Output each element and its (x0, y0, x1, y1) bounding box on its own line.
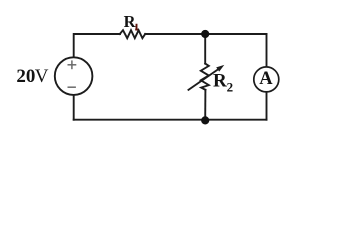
wire bottom (74, 119, 267, 121)
voltage source plus sign (68, 60, 77, 69)
svg-text:2: 2 (227, 80, 234, 95)
node junction bottom (201, 116, 209, 124)
ammeter A1 circle (254, 67, 279, 92)
voltage source V1 circle (55, 57, 93, 95)
wire middle branch upper (204, 34, 206, 64)
label R1 subscript 1 (135, 24, 138, 30)
svg-text:R: R (213, 70, 227, 91)
svg-text:A: A (259, 69, 273, 89)
wire right branch upper (266, 34, 268, 66)
voltage source minus sign (68, 86, 76, 88)
wire top: R1 to right corner (145, 33, 266, 35)
svg-text:20V: 20V (16, 66, 48, 87)
resistor R1 (120, 30, 145, 38)
wire left branch lower (73, 96, 75, 120)
svg-text:R: R (124, 12, 137, 31)
wire top-left: source to R1 (74, 34, 120, 57)
rheostat R2 arrow shaft (188, 68, 220, 90)
rheostat R2 arrow head (216, 65, 224, 72)
wire middle branch lower (204, 90, 206, 120)
node junction top (201, 30, 209, 38)
rheostat R2 zigzag (201, 64, 209, 90)
wire right branch lower (266, 93, 268, 120)
